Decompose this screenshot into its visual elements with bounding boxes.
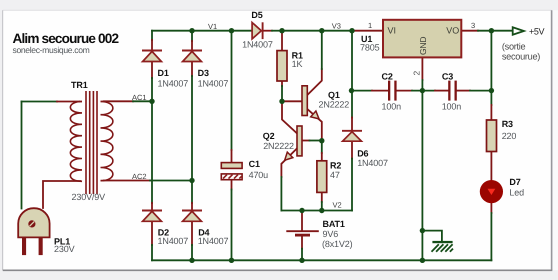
wire C3 right pin [457, 90, 470, 92]
node dot ground rail at GND column [420, 258, 425, 263]
wire AC2 green [150, 180, 192, 182]
wire left rail corner down [151, 31, 153, 40]
node dot V1 rail at C1 [229, 28, 234, 33]
C1 top plate [221, 163, 242, 169]
node dot V2 at R2 [319, 208, 324, 213]
wire R2 top pin [321, 153, 323, 161]
net labels [132, 21, 475, 210]
node dot ground rail at BAT1 [299, 258, 304, 263]
svg-text:secourue): secourue) [502, 51, 540, 61]
TR1 core line 2 [89, 91, 91, 194]
transformer TR1 [70, 91, 113, 194]
Q2 emitter arrow [285, 152, 293, 160]
wire D4 to bottom rail [191, 245, 193, 260]
node dot ground rail at C1 [229, 258, 234, 263]
wire D1 bottom stub [151, 62, 153, 78]
wire D3 top pin [191, 41, 193, 50]
wire C1 column bottom [231, 190, 233, 261]
svg-text:2: 2 [412, 71, 422, 76]
svg-text:1: 1 [368, 21, 372, 30]
node dot rail at D6 [349, 28, 354, 33]
PL1 right prong [39, 238, 43, 255]
capacitor C2 [388, 81, 397, 101]
svg-text:AC2: AC2 [132, 172, 147, 181]
diode D4 [182, 211, 202, 222]
svg-text:230V: 230V [54, 244, 75, 254]
wire AC1 from transformer [104, 100, 133, 102]
wire D2 to bottom rail [151, 245, 153, 260]
D4 cathode bar [182, 210, 202, 212]
D5 cathode bar [262, 22, 264, 39]
C3 left plate [448, 81, 450, 101]
wire D6 column top [351, 31, 353, 118]
wire C3 left pin [435, 90, 448, 92]
D1 cathode bar [142, 50, 162, 52]
battery BAT1 [286, 231, 319, 235]
svg-text:(8x1V2): (8x1V2) [322, 239, 353, 249]
wire top rail V1 left segment [152, 30, 252, 32]
svg-text:D1: D1 [158, 68, 169, 78]
TR1 secondary bottom hook [101, 180, 105, 182]
node dot C3 right [489, 88, 494, 93]
wire C3 to output column [470, 90, 491, 92]
wire primary bottom pin [43, 181, 80, 208]
svg-text:VO: VO [446, 26, 459, 36]
wire Q2 emitter diagonal [281, 148, 297, 177]
D1 triangle [143, 51, 162, 61]
BAT1 short plate [295, 234, 310, 237]
wire Q2 collector green [310, 140, 322, 142]
regulator U1 7805 box [383, 20, 461, 58]
svg-text:TR1: TR1 [71, 80, 88, 90]
svg-text:V3: V3 [332, 22, 341, 31]
diode D3 [182, 51, 202, 62]
svg-text:Alim secourue 002: Alim secourue 002 [13, 31, 120, 46]
node dot output pin3 [489, 28, 494, 33]
svg-text:C1: C1 [249, 159, 260, 169]
svg-text:V2: V2 [333, 201, 342, 210]
transistor Q2 [285, 126, 302, 160]
TR1 primary top hook [79, 101, 82, 103]
wire bottom ground rail [152, 259, 491, 261]
C2 right plate [394, 81, 396, 101]
node dot AC2 [189, 178, 194, 183]
svg-text:1N4007: 1N4007 [198, 78, 229, 88]
svg-text:2N2222: 2N2222 [319, 100, 350, 110]
svg-text:1K: 1K [292, 59, 303, 69]
wire AC1 green [133, 100, 152, 102]
TR1 secondary top hook [101, 100, 105, 102]
wire Q1 collector diagonal [307, 69, 322, 95]
canvas left border [2, 10, 4, 270]
svg-text:100n: 100n [442, 102, 462, 112]
wire R3 to D7 [490, 152, 492, 181]
svg-text:1N4007: 1N4007 [242, 40, 273, 50]
wire plug left lead [21, 102, 23, 209]
D4 triangle [183, 211, 202, 221]
D7 inner triangle [488, 189, 496, 195]
D6 triangle [343, 132, 362, 142]
resistor R2 [317, 161, 327, 193]
wire D3 bottom stub [191, 62, 193, 76]
node dot V2 at BAT1 [299, 208, 304, 213]
wire D3 top stub [191, 31, 193, 41]
wire D6 top pin [351, 118, 353, 131]
svg-text:D5: D5 [251, 10, 262, 20]
ground bar [432, 241, 452, 243]
wire GND column [421, 80, 423, 260]
wire R2 top green [321, 141, 323, 153]
wire D4 bottom stub [191, 221, 193, 245]
svg-text:C3: C3 [442, 72, 453, 82]
C1 bottom plate hatching [223, 175, 242, 179]
C1 bottom plate [221, 174, 242, 180]
node dot ground rail at D4 [189, 258, 194, 263]
svg-text:1N4007: 1N4007 [198, 236, 229, 246]
wire D1 top stub [151, 40, 153, 50]
wire D5 cathode pin [264, 30, 273, 32]
transistor Q1 [302, 86, 319, 119]
wire AC2 from transformer [104, 180, 150, 182]
C2 left plate [388, 81, 390, 101]
wire Q1 base [282, 100, 302, 102]
wire C2 to GND column [412, 90, 435, 92]
wire output column [490, 31, 492, 105]
BAT1 long plate [286, 230, 319, 232]
right margin strip [553, 10, 558, 270]
node dot C2 right GND column [420, 88, 425, 93]
TR1 core line 1 [85, 91, 87, 194]
svg-text:R3: R3 [502, 119, 513, 129]
node dot AC1 [149, 99, 154, 104]
wire AC1 column [151, 78, 153, 203]
wire AC2 column [191, 76, 193, 203]
svg-text:1N4007: 1N4007 [158, 236, 189, 246]
canvas right border [551, 10, 553, 270]
C3 right plate [455, 81, 457, 101]
wire D4 top stub [191, 203, 193, 210]
wire C1 top pin [231, 150, 233, 163]
svg-text:1N4007: 1N4007 [158, 78, 189, 88]
TR1 primary winding [70, 102, 82, 182]
wire V2 rail [281, 210, 352, 212]
wire BAT1 top pin [301, 211, 303, 231]
node dot V1 rail at D3 [189, 28, 194, 33]
capacitor C3 [448, 81, 457, 101]
svg-text:R2: R2 [330, 161, 341, 171]
wire R1 to base node [281, 86, 283, 101]
svg-text:D3: D3 [198, 68, 209, 78]
wire D2 bottom stub [151, 221, 153, 245]
svg-text:9V6: 9V6 [323, 229, 339, 239]
wire earth branch [422, 231, 442, 241]
wire primary top lead [22, 101, 58, 103]
svg-text:3: 3 [471, 21, 475, 30]
D3 triangle [183, 51, 202, 61]
svg-text:AC1: AC1 [132, 93, 147, 102]
wire R2 to V2 [321, 202, 323, 211]
wire Q2 base drop [282, 101, 297, 133]
resistor R1 [277, 51, 287, 81]
wire output node [478, 30, 513, 32]
wire D6 to V2 [351, 159, 353, 211]
Q1 base bar [302, 86, 307, 116]
node dot V1 rail at R1 [279, 28, 284, 33]
D7 body circle [480, 180, 503, 203]
wire C1 column top [231, 31, 233, 150]
svg-text:GND: GND [418, 37, 428, 55]
wire D7 to ground rail [490, 213, 492, 260]
output arrow +5V [513, 27, 524, 34]
D3 cathode bar [182, 50, 202, 52]
wire V3 column [321, 31, 323, 69]
canvas bottom border [3, 269, 553, 271]
TR1 secondary winding [101, 102, 113, 181]
diode D5 [252, 22, 263, 39]
wire D7 bottom pin [490, 203, 492, 213]
svg-text:Q2: Q2 [263, 131, 275, 141]
svg-text:470u: 470u [249, 170, 269, 180]
wire primary top pin [57, 101, 79, 103]
svg-text:220: 220 [502, 131, 517, 141]
TR1 core line 4 [96, 91, 98, 194]
svg-text:2N2222: 2N2222 [263, 141, 294, 151]
node dot C2 left [349, 88, 354, 93]
D6 cathode bar [342, 130, 362, 132]
svg-text:100n: 100n [382, 102, 402, 112]
wire Q2 emitter to V2 [280, 177, 282, 211]
svg-text:1N4007: 1N4007 [357, 158, 388, 168]
diode D2 [142, 211, 162, 222]
wire BAT1 to ground rail [301, 249, 303, 261]
wire U1 pin3 stub [462, 30, 479, 32]
PL1 slash [30, 222, 35, 227]
wire C2 left pin [372, 90, 389, 92]
D2 triangle [143, 211, 162, 221]
earth ground symbol [432, 241, 454, 252]
svg-text:VI: VI [388, 26, 397, 36]
wire C1 bottom pin [231, 180, 233, 190]
wire R1 node to D6 node [282, 30, 352, 32]
PL1 body [18, 208, 49, 237]
wire BAT1 bottom pin [301, 236, 303, 248]
capacitor C1 [221, 163, 242, 180]
wire D2 top stub [151, 203, 153, 210]
wire R1 top pin [281, 31, 283, 51]
plug PL1 [18, 208, 49, 255]
node dot V3 [319, 28, 324, 33]
wire U1 GND pin [421, 58, 423, 81]
Q2 base bar [297, 126, 302, 156]
wire Q2 collector stub [302, 140, 310, 142]
wire D6 bottom pin [351, 141, 353, 159]
diode D6 [342, 131, 362, 141]
resistor R3 [487, 120, 497, 152]
wire R2 bottom pin [321, 192, 323, 202]
wire C2 row left green [352, 90, 373, 92]
wire R1 bottom pin [281, 81, 283, 86]
led D7 [480, 180, 503, 203]
wire pin1 stub into U1 [352, 30, 383, 32]
node dot Q1 base [279, 99, 284, 104]
svg-text:BAT1: BAT1 [323, 219, 345, 229]
svg-text:+5V: +5V [529, 27, 544, 37]
TR1 primary bottom hook [80, 180, 82, 182]
wire D5 to R1 node [272, 30, 282, 32]
ground hatch lines [432, 244, 454, 252]
svg-text:C2: C2 [382, 72, 393, 82]
svg-text:sonelec-musique.com: sonelec-musique.com [13, 45, 90, 55]
Q1 emitter arrow [311, 111, 319, 119]
svg-text:Led: Led [509, 187, 524, 197]
svg-text:47: 47 [330, 170, 340, 180]
node dot emitter junction [319, 138, 324, 143]
diode D1 [142, 51, 162, 62]
PL1 left prong [22, 238, 26, 255]
canvas top border [3, 9, 552, 11]
svg-text:230V/9V: 230V/9V [72, 192, 106, 202]
wire Q1 emitter diagonal [307, 109, 322, 141]
svg-text:7805: 7805 [360, 42, 380, 52]
svg-text:D7: D7 [509, 177, 520, 187]
svg-text:V1: V1 [208, 22, 217, 31]
TR1 core line 3 [92, 91, 94, 194]
D2 cathode bar [142, 210, 162, 212]
svg-text:Q1: Q1 [328, 90, 340, 100]
D5 triangle [252, 23, 261, 39]
node dot earth branch [420, 228, 425, 233]
wire R3 top pin [490, 105, 492, 120]
svg-text:(sortie: (sortie [502, 42, 526, 52]
PL1 slash circle [28, 220, 35, 227]
wire C2 right pin [396, 90, 412, 92]
